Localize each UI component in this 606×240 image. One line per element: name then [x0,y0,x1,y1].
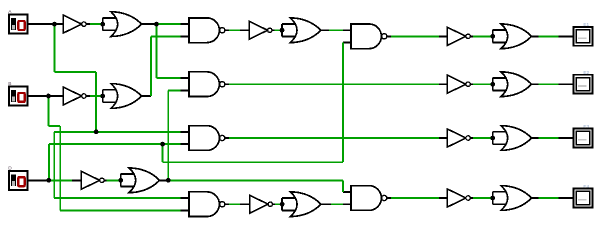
wire net A branch down [53,24,55,72]
wire NAND N15 bottom input stub [343,41,351,43]
wire N14 output to OR O6 [273,203,276,205]
wire O2 output corner [142,95,151,97]
OR gate O6 [282,192,321,217]
junction node A branch [52,22,57,27]
wire n3 to NAND N16 top input [168,179,343,181]
wire net D to NAND N10 bottom input y=144 [49,143,181,145]
NAND gate N9 [189,18,229,43]
wire net A down to NAND N10 top input row [95,72,97,132]
output pin E3 [574,124,593,148]
wire N10 output to inverter N19 [229,137,439,139]
node OR O8 input [490,82,495,87]
inverter N3 [81,171,104,189]
wire to NAND N11 bottom input [168,89,180,91]
wire net A to NAND N12 top input [54,197,180,199]
node OR O6 input [280,202,285,207]
wire N11 output to inverter N18 [229,83,439,85]
wire N1 output stub [86,23,90,25]
node OR O9 input [490,136,495,141]
junction node n1 [154,22,159,27]
wire N9 output to inverter N13 [229,29,240,31]
wire N3 output stub [104,179,106,181]
wire O3 output to node n3 [160,179,169,181]
wire net D to inverter N3 [50,179,72,181]
wire N16 output to inverter N20 [391,197,439,199]
wire n2 branch horizontal y=162 [163,161,343,163]
wire net A down left column [53,132,55,198]
inverter N14 [250,195,273,213]
wire O9 output to pin E3 [532,137,539,139]
node OR O2 input [100,94,105,99]
wire n1 to NAND N9 top input [156,23,180,25]
wire net A to NAND N10 top input y=132 [54,131,180,133]
node OR O7 input [490,34,495,39]
OR gate O10 [493,186,532,211]
OR gate O8 [493,72,532,97]
junction node n3 [166,178,171,183]
wire NAND N16 top input stub [343,191,351,193]
wire N12 output to inverter N14 [229,203,240,205]
NAND gate N10 [189,126,229,151]
inverter N1 [63,15,86,33]
wire N3 output to OR O3 [107,179,121,181]
wire net B to NAND N12 bottom input [60,209,180,211]
wire to NAND N9 bottom input [151,35,181,37]
wire N17 output to OR O7 [470,35,473,37]
wire A pin to inverter N1 (net A) [28,23,64,25]
wire O7 output to pin E1 [532,35,539,37]
OR gate O1 [103,12,142,37]
wire n3 corner down [342,180,344,192]
NAND gate N12 [189,192,229,217]
wire n2 branch down [162,144,164,162]
output pin E4 [574,184,593,208]
inverter N17 [447,27,470,45]
inverter N19 [447,129,470,147]
node OR O1 input [100,22,105,27]
NAND gate N15 [351,24,391,49]
inverter N2 [63,87,86,105]
NAND gate N11 [189,72,229,97]
wire N19 output to OR O9 [470,137,473,139]
wire D pin to junction (net D) [27,179,47,181]
node OR O3 input [118,178,123,183]
node OR O5 input [280,28,285,33]
input pin A (toggle switch with digit display) [8,9,27,33]
wire N18 output to OR O8 [470,83,473,85]
junction node net D [46,178,51,183]
OR gate O3 [121,168,160,193]
wire net A horizontal jog y=72 [54,71,96,73]
OR gate O2 [103,84,142,109]
OR gate O5 [282,18,321,43]
junction node net A joins [94,129,99,134]
wire N2 output stub [86,95,90,97]
wire N1 output to OR O1 [90,23,103,25]
input pin D (toggle switch with digit display) [8,165,27,189]
wire n3 up to NAND N11 bottom input [167,90,169,180]
inverter N20 [447,189,470,207]
output pin E2 [574,70,593,94]
wire net B jog y=126 [48,125,60,127]
wire N2 output to OR O2 [90,95,103,97]
junction node B branch [46,94,51,99]
output pin E1 [574,22,593,46]
wire N20 output to OR O10 [470,197,473,199]
wire n1 branch horizontal y=78 [156,77,180,79]
inverter N18 [447,75,470,93]
wire net B branch down [47,96,49,126]
OR gate O9 [493,126,532,151]
input pin B (toggle switch with digit display) [8,81,27,105]
OR gate O7 [493,24,532,49]
wire O10 output to pin E4 [532,197,539,199]
node OR O10 input [490,196,495,201]
wire N15 output to inverter N17 [391,35,439,37]
wire O8 output to pin E2 [532,83,539,85]
inverter N13 [249,21,272,39]
wire N13 output to OR O5 [272,29,275,31]
wire n1 branch down to NAND N11 top input [155,24,157,78]
wire O5 output to NAND N15 top input [321,29,329,31]
wire B pin to inverter N2 (net B) [28,95,64,97]
wire O2 output up to NAND N9 bottom input [150,36,152,96]
wire net B down to NAND N12 bottom input row [59,126,61,211]
wire net D column down to D pin junction [48,144,50,180]
wire n2 branch up to NAND N15 bottom input [342,42,344,162]
junction node n2 on net D [160,142,165,147]
wire O1 output to node n1 [142,23,157,25]
NAND gate N16 [351,186,391,211]
wire O6 output to NAND N16 bottom input [321,203,331,205]
